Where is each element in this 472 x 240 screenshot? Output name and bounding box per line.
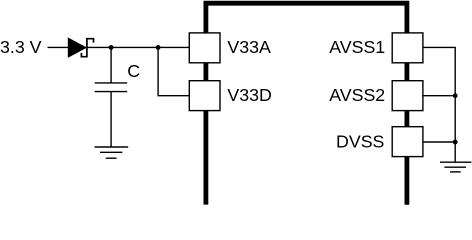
svg-text:V33D: V33D — [227, 85, 271, 105]
svg-text:AVSS2: AVSS2 — [329, 85, 385, 105]
svg-text:C: C — [127, 61, 140, 81]
svg-text:AVSS1: AVSS1 — [329, 37, 385, 57]
svg-text:V33A: V33A — [227, 37, 271, 57]
svg-text:DVSS: DVSS — [336, 131, 385, 151]
svg-text:3.3 V: 3.3 V — [0, 37, 42, 57]
